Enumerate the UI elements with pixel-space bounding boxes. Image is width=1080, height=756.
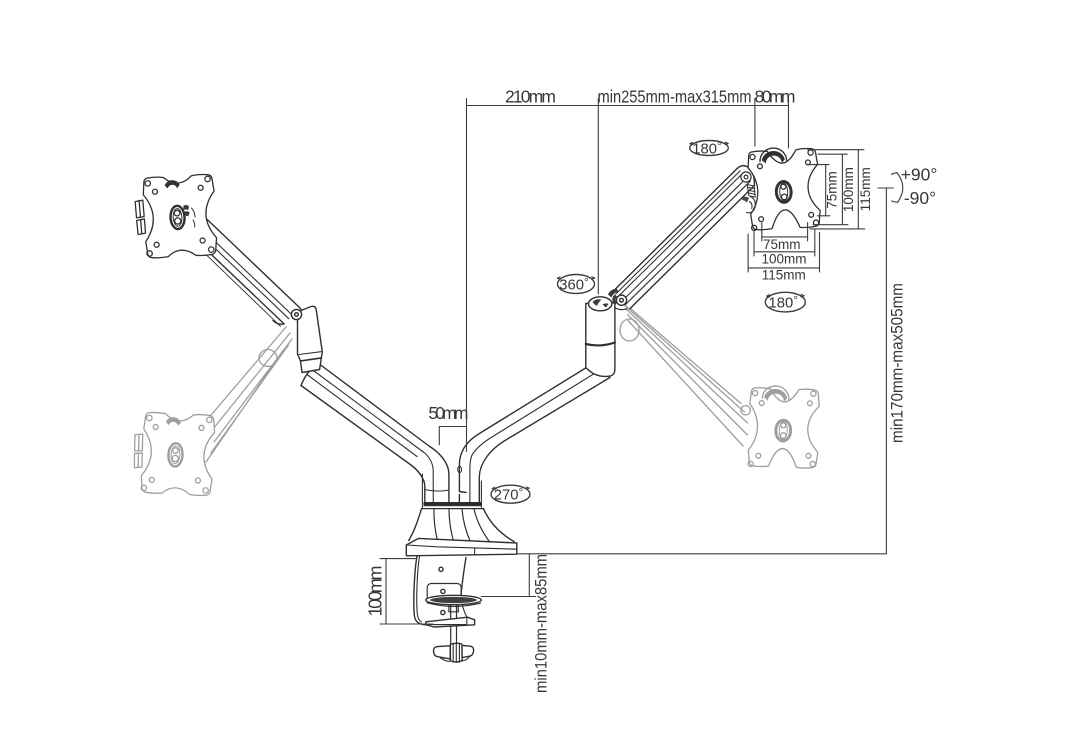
svg-text:75mm: 75mm	[825, 171, 840, 209]
base plate on desk	[406, 538, 517, 555]
plus-minus 90 degree arc	[897, 173, 903, 203]
svg-text:115mm: 115mm	[762, 268, 806, 283]
svg-text:min10mm-max85mm: min10mm-max85mm	[533, 554, 551, 693]
left elbow post	[298, 306, 323, 361]
rotation ellipse 360deg	[558, 275, 595, 294]
svg-text:100mm: 100mm	[366, 566, 386, 617]
svg-text:100mm: 100mm	[841, 167, 856, 212]
dimension 115mm vertical line right of plate	[808, 150, 865, 229]
left upper spring arm	[187, 215, 303, 325]
right arm gas spring coil	[747, 185, 755, 198]
pole collar ring (dark)	[424, 502, 483, 506]
small notch on lower arm	[458, 466, 462, 472]
ghost arm left (folded position)	[206, 327, 292, 462]
desk clamp bracket	[414, 556, 427, 625]
clamp screw shaft	[449, 605, 458, 645]
ghost elbow curve right	[620, 319, 639, 341]
ghost VESA plate right	[748, 385, 820, 469]
svg-text:80mm: 80mm	[755, 87, 796, 107]
dimension 75mm vertical line right of plate	[809, 165, 830, 216]
desk surface line	[517, 553, 887, 555]
clamp slot plate	[427, 584, 461, 602]
left elbow joint circle	[291, 309, 301, 319]
svg-text:min170mm-max505mm: min170mm-max505mm	[889, 283, 907, 443]
clamp lower jaw	[426, 617, 475, 627]
dimension 75mm horizontal below plate	[762, 223, 808, 242]
svg-text:50mm: 50mm	[428, 403, 468, 423]
right upper spring arm	[613, 168, 755, 308]
ghost VESA plate left	[132, 411, 216, 496]
right arm jaw at plate	[742, 197, 749, 203]
rotation ellipse 180deg top	[690, 141, 729, 156]
svg-text:115mm: 115mm	[858, 167, 873, 211]
left VESA plate (solid)	[134, 174, 218, 259]
dimension tick at x598 down to rotation post	[597, 99, 599, 295]
dimension min10mm-max85mm vertical line	[481, 555, 535, 597]
dimension 50mm line	[439, 427, 465, 445]
svg-text:min255mm-max315mm: min255mm-max315mm	[598, 87, 752, 107]
rotation ellipse 270deg	[491, 485, 530, 503]
dimension 100mm vertical line right of plate	[813, 154, 848, 225]
left plate tilt-hinge detail	[183, 205, 189, 216]
svg-text:+90°: +90°	[901, 165, 938, 185]
right arm hinge knuckle at post	[608, 289, 619, 306]
dimension tick 80mm right	[788, 99, 790, 149]
bell skirt ribs	[434, 509, 490, 543]
dimension top horizontal line	[467, 105, 789, 107]
svg-text:-90°: -90°	[904, 188, 936, 208]
right arm top hinge circle	[741, 172, 751, 182]
right lower arm segment	[459, 368, 610, 503]
clamp screw holes	[439, 567, 443, 571]
ghost elbow curve left	[259, 350, 277, 367]
ghost arm right (folded position)	[617, 297, 748, 446]
svg-text:100mm: 100mm	[761, 252, 806, 267]
dimension tick at x755	[754, 99, 756, 147]
bell skirt outline	[409, 509, 514, 542]
right post joint circle	[616, 295, 626, 305]
dimension 100mm clamp vertical line	[380, 559, 433, 624]
dimension 115mm horizontal below plate	[748, 233, 819, 273]
svg-text:75mm: 75mm	[763, 237, 801, 252]
left lower arm segment	[301, 363, 449, 503]
rotation ellipse 180deg right	[765, 292, 805, 312]
clamp wing nut	[434, 646, 451, 659]
clamp pad disc	[426, 595, 482, 604]
ghost joint circle right	[741, 406, 750, 415]
dimension min170mm-max505mm vertical line	[878, 188, 893, 554]
svg-text:210mm: 210mm	[505, 87, 556, 107]
dimension tick 210mm left / long extension to arm	[466, 99, 468, 452]
right rotation post	[586, 303, 615, 377]
dimension 100mm horizontal below plate	[754, 229, 815, 256]
right VESA plate (solid, front view)	[747, 146, 821, 231]
